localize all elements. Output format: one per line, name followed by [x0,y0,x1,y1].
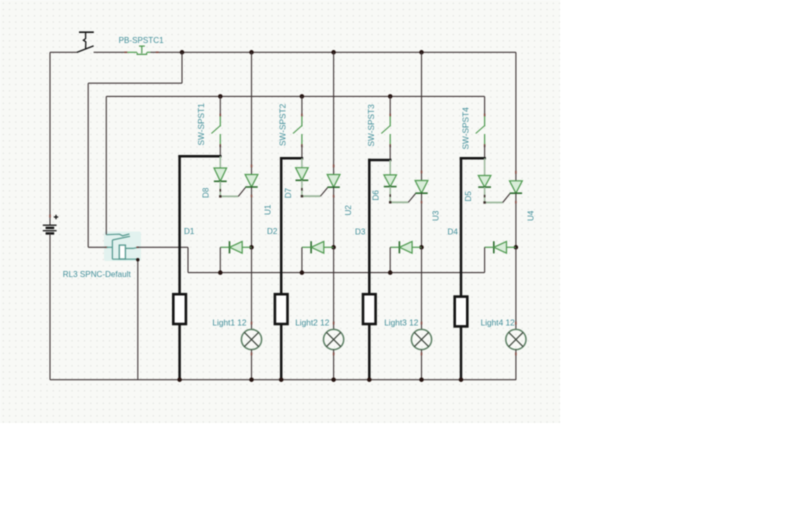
junction U3 cathode / D3 node [419,245,424,250]
svg-text:D8: D8 [202,187,211,198]
wire lamp1 top lead [251,247,253,329]
svg-text:U4: U4 [527,210,536,221]
wire top rail: push switch to PB-SPSTC1 [94,51,125,53]
pin tick D8 cathode [219,189,221,192]
wire D2 cathode drop to bus [301,247,303,272]
wire bus riser to D4 [484,247,486,272]
junction SW-SPST2 top [300,94,305,99]
thick wire channel 2 horizontal [280,157,303,160]
lamp Light3 [411,329,431,349]
wire SW-SPST4 top lead [484,96,486,116]
thyristor U3 [415,181,428,194]
wire gate diagonal U1 [238,187,245,196]
svg-text:D3: D3 [355,228,366,237]
pin tick U3 cathode [421,201,423,204]
lamp Light4 [506,329,526,349]
wire node A down [181,52,183,83]
svg-text:PB-SPSTC1: PB-SPSTC1 [119,36,164,45]
svg-text:D2: D2 [267,227,278,236]
wire SW-SPST3 top lead [389,96,391,116]
svg-text:Light1 12: Light1 12 [212,317,247,327]
pin tick relay left [105,246,107,248]
svg-text:D6: D6 [371,190,380,201]
pin tick U2 cathode [333,195,335,198]
wire gate run U4 horizontal (pale) [484,202,503,204]
svg-text:SW-SPST1: SW-SPST1 [196,103,206,146]
wire top rail left segment [50,51,77,53]
pin tick U4 cathode [515,201,517,204]
junction lamp2 at bottom rail [331,377,336,382]
pin tick SW-SPST1 bottom [219,144,221,147]
svg-text:D5: D5 [464,191,473,202]
push button PB-SPSTC1 [127,46,150,54]
junction R3 at bottom rail [367,377,372,382]
svg-text:D1: D1 [184,227,195,236]
wire U2 cathode down [333,187,335,247]
pin tick SW-SPST3 top [389,114,391,117]
pin corner D8 cathode node [219,195,221,197]
thyristor U1 [245,175,258,188]
wire bottom rail (battery-) [50,379,516,381]
relay RL3 highlight [104,232,141,262]
pin tick PB-SPSTC1 right [156,51,159,53]
wire SW-SPST4 bottom lead [484,145,486,158]
wire left column x88 down [87,83,89,247]
wire top rail: node A to U4 drop [182,51,516,53]
resistor R2 [275,294,288,324]
wire U1 anode drop [251,52,253,174]
junction U1 anode at top rail [249,50,254,55]
wire lamp3 bottom lead [421,350,423,380]
relay RL3 SPNC contact blade [106,234,130,259]
svg-text:Light3 12: Light3 12 [384,317,419,327]
wire D1 cathode drop to bus [219,247,221,272]
lead D5 cathode (pale) [484,187,486,202]
thick wire channel 2 vertical [280,157,283,380]
push switch S1 (push-to-make, black) [77,32,94,52]
pin tick SW-SPST4 top [484,114,486,117]
wire gate diagonal U4 [503,194,510,203]
pin tick U2 anode [333,165,335,168]
pin corner D6 cathode node [389,201,391,203]
wire node A leftward at y83 [88,82,182,84]
lead D7 anode (pale) [301,158,303,167]
diode D8 [214,168,227,181]
resistor R4 [455,297,468,327]
wire SW-SPST1 bottom lead [219,145,221,156]
wire lamp2 top lead [333,247,335,329]
pin tick Light4 top [515,322,517,325]
diode D7 [296,168,309,181]
wire second rail drop to relay common [105,96,107,234]
junction bus at D2 [300,270,305,275]
lead D5 anode (pale) [484,158,486,175]
wire U1 cathode down [251,187,253,247]
lead D7 cathode (pale) [301,180,303,196]
wire U3 anode drop [421,52,423,180]
pin tick Light4 bottom [515,352,517,355]
thyristor U2 [327,175,340,188]
wire trigger bus y272 [188,272,485,274]
svg-text:Light4 12: Light4 12 [481,317,516,327]
wire lamp3 top lead [421,247,423,329]
pin tick Light1 bottom [251,352,253,355]
wire SW-SPST2 bottom lead [301,145,303,158]
wire top rail: PB to node A [150,51,182,53]
wire second rail y96 [106,95,484,97]
pin tick D7 cathode [301,188,303,191]
diode D6 [384,175,397,187]
wire SW-SPST2 top lead [301,96,303,116]
wire SW-SPST3 bottom lead [389,145,391,160]
junction U3 anode at top rail [419,50,424,55]
wire SW-SPST1 top lead [219,96,221,116]
wire gate diagonal U3 [408,194,415,203]
thyristor U4 [510,181,523,193]
pin tick U1 anode [251,165,253,168]
thick wire channel 4 vertical [460,157,463,380]
thick wire channel 3 vertical [368,159,371,380]
grid canvas background [0,0,560,423]
diode D3 [390,241,421,253]
switch SW-SPST3 [381,116,390,145]
pin tick SW-SPST4 bottom [484,144,486,147]
junction lamp1 at bottom rail [249,377,254,382]
wire U3 cathode down [421,193,423,247]
pin tick D5 cathode [484,195,486,198]
pin tick PB-SPSTC1 left [124,51,127,53]
wire gate run U2 horizontal (pale) [301,195,320,197]
wire top rail corner down to U4 [515,52,517,181]
svg-text:U2: U2 [344,205,353,216]
relay RL3 coil [119,245,125,259]
pin tick Light1 top [251,322,253,325]
thick wire channel 1 vertical [178,155,181,380]
lamp Light2 [324,329,344,349]
junction R1 at bottom rail [177,377,182,382]
pin tick Light3 top [421,322,423,325]
pin tick battery + [49,215,51,218]
wire gate diagonal U2 [320,188,327,197]
switch SW-SPST1 [211,116,220,145]
diode D2 [302,241,334,253]
svg-text:U1: U1 [264,204,273,215]
wire gate run U3 horizontal (pale) [390,201,409,203]
lead D8 cathode (pale) [219,181,221,196]
junction bus at D3 [388,270,393,275]
wire bus step down at x188 [187,247,189,272]
switch SW-SPST4 [476,116,485,145]
pin tick SW-SPST2 top [301,114,303,117]
junction R2 at bottom rail [279,377,284,382]
pin tick U1 cathode [251,195,253,198]
diode D1 [220,241,251,253]
wire U4 cathode down [515,193,517,247]
thick wire channel 4 horizontal [460,157,486,160]
wire lamp4 top lead [515,247,517,329]
junction bus at D1 [218,270,223,275]
diode D5 [478,176,491,188]
relay RL3 coil leads [112,247,137,259]
wire lamp4 bottom lead [515,350,517,380]
pin tick Light2 bottom [333,352,335,355]
svg-text:SW-SPST3: SW-SPST3 [366,104,376,147]
wire to relay left pin [88,246,106,248]
junction SW-SPST3 top [388,94,393,99]
svg-text:RL3 SPNC-Default: RL3 SPNC-Default [63,270,132,279]
lead D6 anode (pale) [389,160,391,175]
wire lamp1 bottom lead [251,350,253,380]
junction U2 cathode / D2 node [331,245,336,250]
wire lamp2 bottom lead [333,350,335,380]
pin tick D6 cathode [389,194,391,197]
pin tick SW-SPST2 bottom [301,144,303,147]
junction U4 cathode / D4 node [514,245,519,250]
pin tick SW-SPST1 top [219,114,221,117]
wire gate run U1 horizontal (pale) [220,195,239,197]
pin tick Light3 bottom [421,352,423,355]
svg-text:Light2 12: Light2 12 [295,317,330,327]
pin tick U3 anode [421,171,423,174]
junction U1 cathode / D1 node [249,245,254,250]
wire battery top lead [49,52,51,225]
resistor R3 [363,294,376,324]
svg-text:SW-SPST4: SW-SPST4 [460,107,470,150]
pin corner D5 cathode node [483,201,485,203]
wire D3 cathode drop to bus [389,247,391,272]
resistor R1 [173,294,186,324]
wire relay bottom drop [137,259,139,379]
thick wire channel 1 horizontal [178,155,221,158]
svg-text:U3: U3 [432,210,441,221]
wire battery bottom lead [49,233,51,379]
svg-text:D7: D7 [284,187,293,198]
svg-text:D4: D4 [448,228,459,237]
pin tick Light2 top [333,322,335,325]
battery B1 [43,215,58,234]
lead D8 anode (pale) [219,156,221,168]
lead D6 cathode (pale) [389,187,391,203]
pin corner D7 cathode node [301,195,303,197]
svg-text:SW-SPST2: SW-SPST2 [278,103,288,146]
wire U2 anode drop [333,52,335,174]
junction lamp3 at bottom rail [419,377,424,382]
junction U2 anode at top rail [331,50,336,55]
diode D4 [485,241,516,253]
pin tick SW-SPST3 bottom [389,144,391,147]
thick wire channel 3 horizontal [368,159,391,162]
junction SW-SPST1 top [218,94,223,99]
junction relay bottom corner [136,258,139,261]
node A junction [180,50,185,55]
lamp Light1 [241,329,261,349]
junction R4 at bottom rail [459,377,464,382]
pin tick U4 anode [515,171,517,174]
pin tick relay right [136,246,138,248]
wire relay output rightward [138,246,188,248]
switch SW-SPST2 [293,116,302,145]
